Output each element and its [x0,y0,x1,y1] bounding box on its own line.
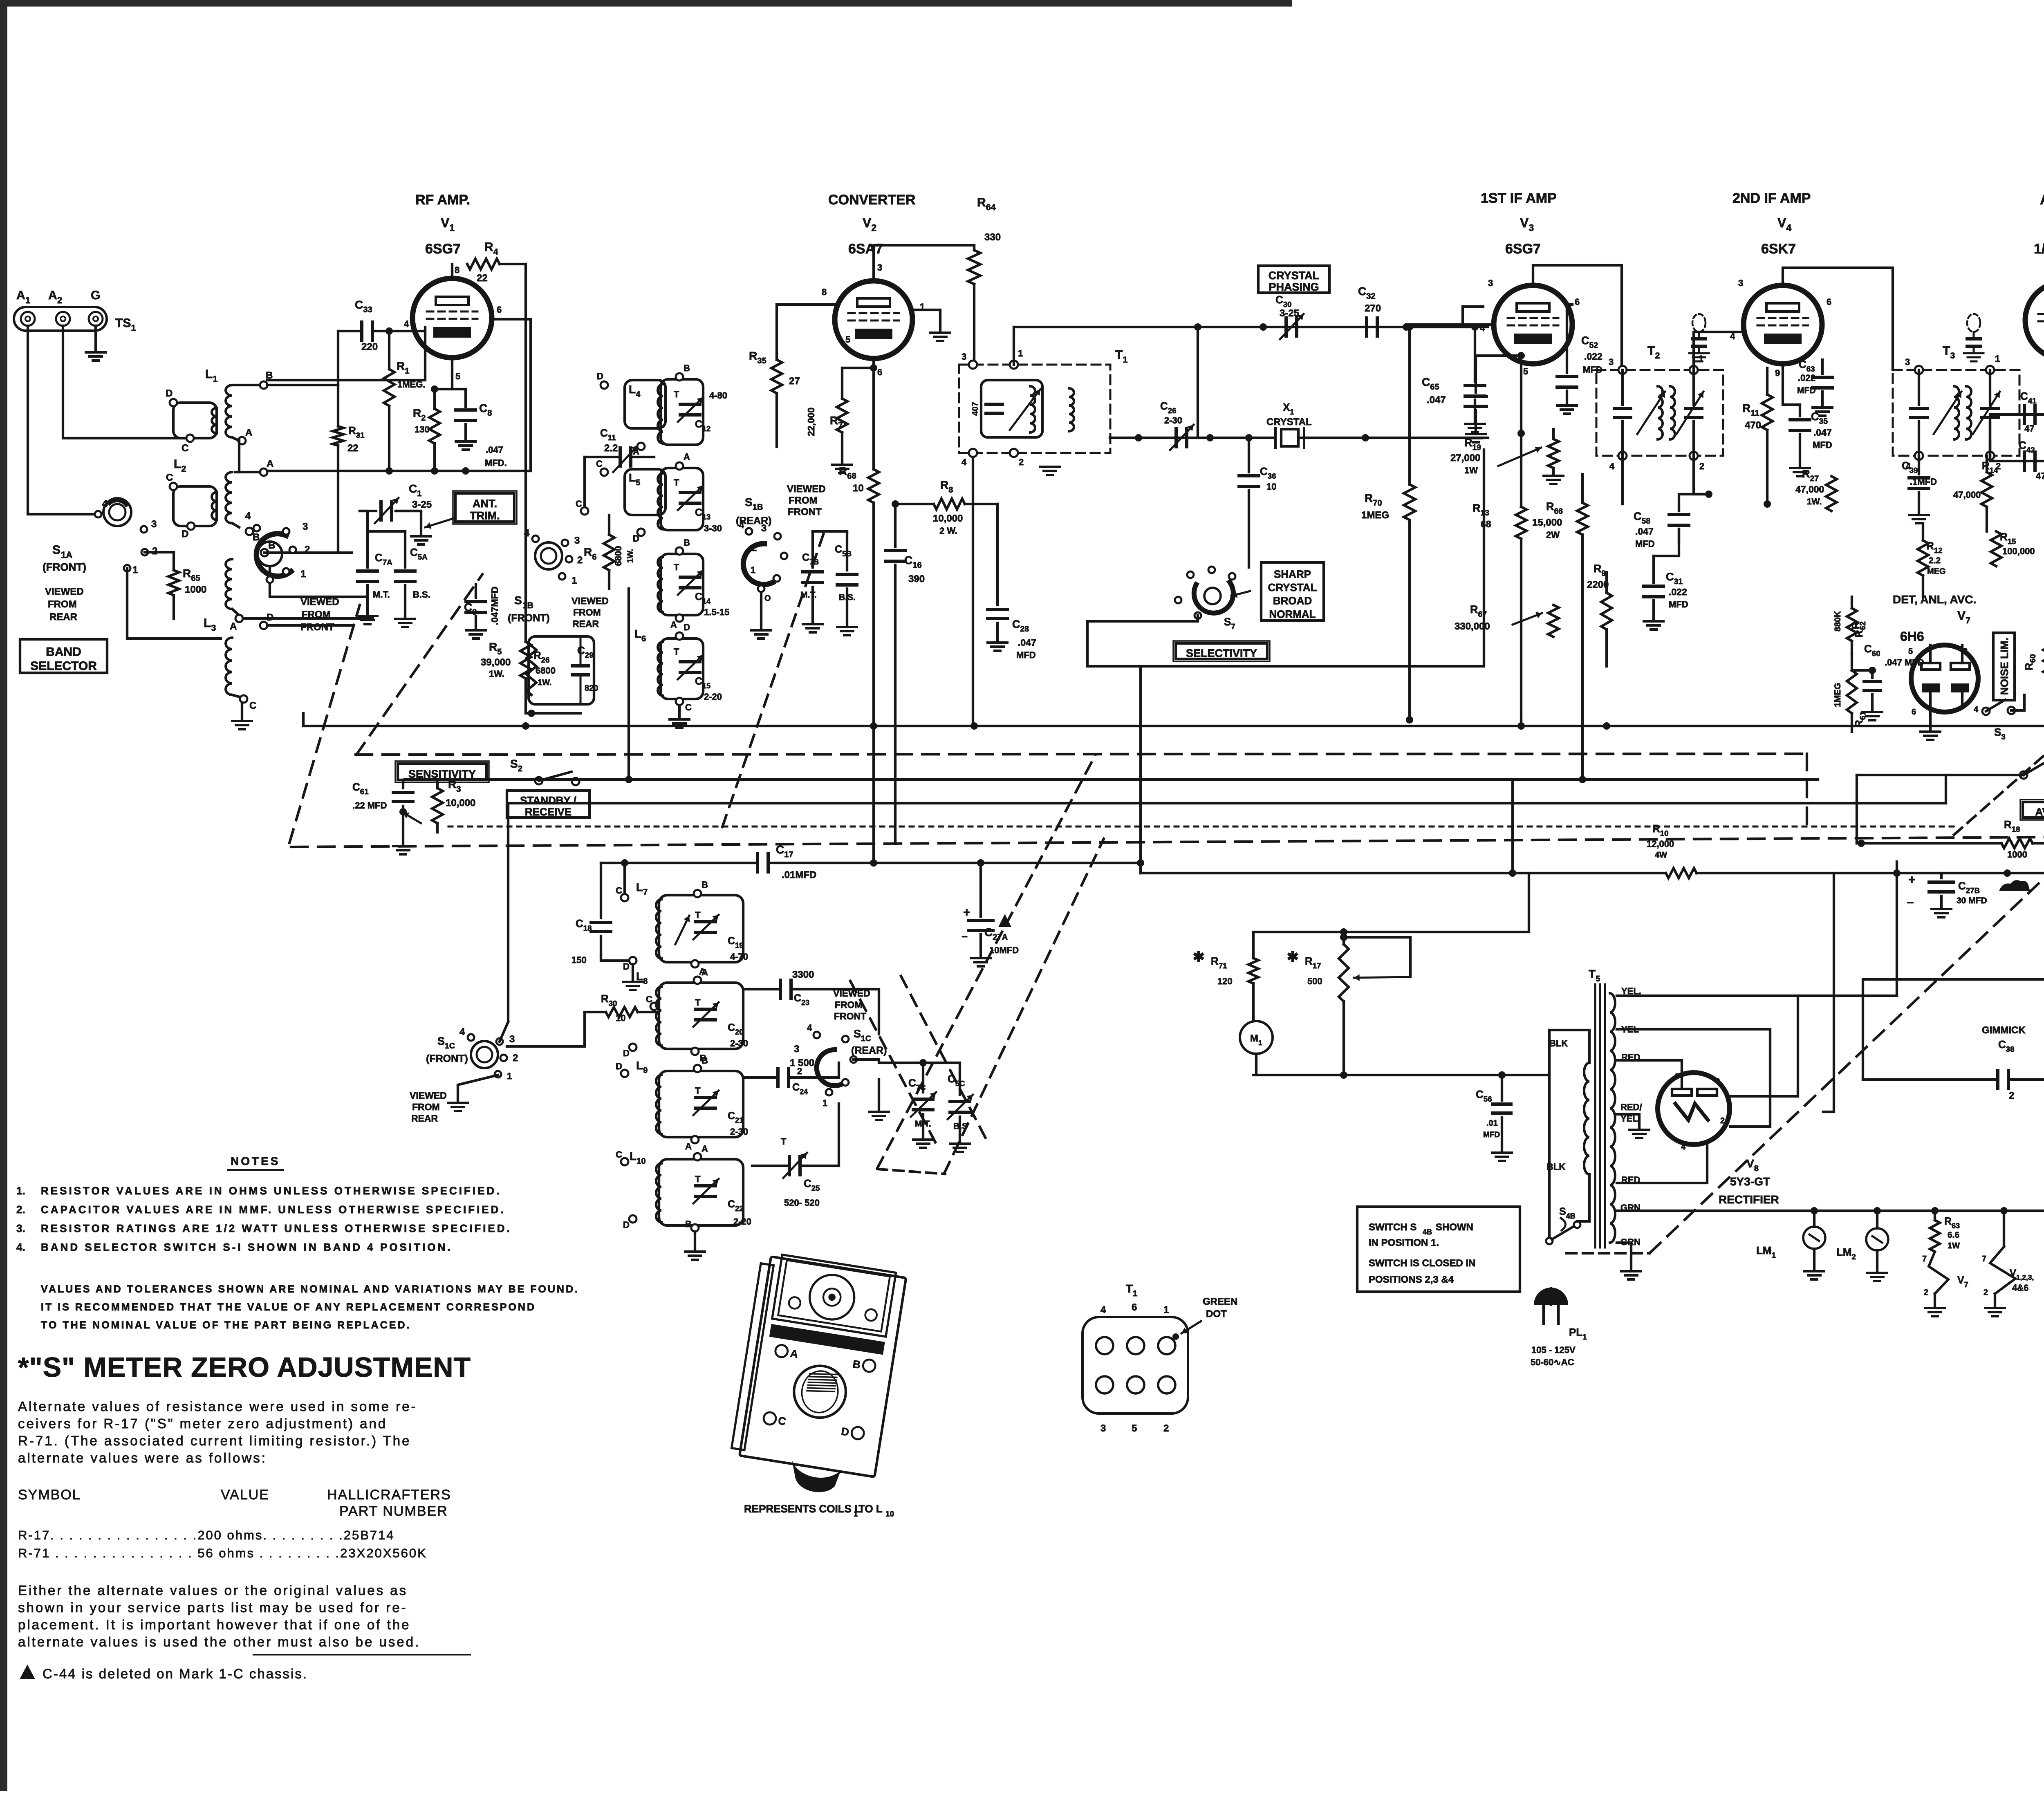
svg-text:MFD: MFD [1813,440,1832,450]
svg-text:+: + [1908,873,1916,887]
svg-text:1: 1 [25,295,30,305]
bus B+ feeders [525,713,526,726]
switch note box [1357,1207,1520,1292]
svg-text:VIEWED: VIEWED [787,484,826,495]
svg-text:D: D [623,961,630,972]
svg-text:1.5-15: 1.5-15 [704,607,729,617]
svg-text:S: S [52,543,61,557]
svg-text:3: 3 [1905,357,1910,367]
ground L7 [623,981,643,983]
svg-text:C5B: C5B [835,544,852,558]
svg-text:4-70: 4-70 [730,952,748,962]
svg-text:6: 6 [1132,1302,1137,1313]
long verticals IF [1253,915,1254,916]
svg-text:RESISTOR RATINGS ARE 1/2 W: RESISTOR RATINGS ARE 1/2 WATT UNLESS OTH… [41,1222,512,1234]
svg-text:1B: 1B [522,601,533,610]
svg-text:DOT: DOT [1206,1308,1227,1319]
svg-text:M1: M1 [1250,1033,1262,1047]
noise limiter vertical box [1993,633,2015,700]
svg-text:1/2 6SC7: 1/2 6SC7 [2034,241,2044,257]
svg-text:D: D [597,371,603,381]
svg-text:4.: 4. [16,1241,25,1253]
svg-text:2-20: 2-20 [733,1216,751,1227]
box R26 C29 [529,636,594,704]
svg-text:T: T [695,910,701,920]
svg-text:SHOWN: SHOWN [1436,1222,1473,1233]
svg-text:6SG7: 6SG7 [425,241,461,257]
wire V4 top pin6 [1821,268,1840,298]
svg-text:R71: R71 [1211,955,1227,970]
svg-text:2: 2 [513,1053,518,1064]
svg-text:4B: 4B [1423,1228,1432,1236]
svg-text:T: T [674,477,679,488]
svg-text:SELECTIVITY: SELECTIVITY [1186,647,1257,659]
rotary switch S1C front [471,1041,498,1068]
svg-text:4: 4 [245,511,251,522]
svg-text:T1: T1 [1115,348,1127,365]
svg-text:3: 3 [1100,1423,1106,1434]
svg-text:(FRONT): (FRONT) [426,1053,468,1064]
svg-text:1: 1 [132,564,138,576]
svg-text:L7: L7 [636,881,648,897]
svg-text:A: A [48,289,57,302]
svg-text:150: 150 [572,955,587,965]
svg-text:(REAR): (REAR) [851,1045,887,1056]
diag dashed main right [1650,432,2044,1252]
svg-text:.022: .022 [1584,351,1602,362]
svg-text:47,000: 47,000 [1953,490,1981,500]
svg-text:T: T [695,997,701,1008]
svg-text:2.2: 2.2 [604,443,618,454]
svg-text:1W: 1W [1948,1241,1960,1250]
svg-text:NORMAL: NORMAL [1269,608,1316,620]
svg-text:9: 9 [1775,368,1780,378]
svg-text:V4: V4 [1777,215,1791,233]
svg-text:GIMMICK: GIMMICK [1982,1025,2026,1036]
ground C8 [456,440,475,443]
svg-text:VIEWED: VIEWED [300,596,339,607]
tube V5 audio amp [2025,282,2044,359]
svg-text:120: 120 [1217,976,1233,986]
svg-text:2.: 2. [16,1203,25,1216]
svg-text:2-30: 2-30 [730,1127,748,1137]
svg-text:FROM: FROM [573,607,601,618]
svg-text:1.: 1. [16,1185,25,1197]
svg-text:PHASING: PHASING [1269,281,1319,293]
svg-text:VIEWED: VIEWED [572,596,609,606]
wire T2 pin2 down to C58 node [1694,456,1709,494]
diag dashed S1B gang [722,527,826,827]
svg-text:22: 22 [347,443,359,454]
svg-text:FROM: FROM [789,495,818,506]
crystal filter frame [1197,327,1199,438]
svg-text:27,000: 27,000 [1450,452,1480,464]
svg-text:A: A [230,621,237,632]
ground L6 [678,705,681,719]
svg-text:C17: C17 [776,843,793,859]
standby receive label box [507,791,589,818]
svg-text:1W.: 1W. [626,549,635,563]
meter line [1253,1074,1549,1076]
R10 screen line [1513,849,1818,850]
V7 pin wires [1929,645,1932,663]
svg-text:2-20: 2-20 [704,692,722,702]
det wiring frame [1823,597,2044,742]
svg-text:B: B [702,880,708,890]
svg-text:1: 1 [1995,354,2000,364]
wire L1 B to grid [267,327,425,380]
cathode bus y1152 [267,470,531,472]
svg-text:MEG: MEG [1927,567,1946,576]
svg-text:−: − [1907,896,1914,909]
svg-text:PL1: PL1 [1569,1326,1587,1341]
svg-text:V1: V1 [441,215,455,233]
svg-text:RECEIVE: RECEIVE [525,806,572,818]
svg-text:X1: X1 [1283,401,1294,416]
svg-text:RED/: RED/ [1620,1102,1642,1112]
svg-text:B: B [684,363,690,373]
svg-text:R5: R5 [489,641,502,656]
svg-text:D: D [684,622,690,632]
svg-text:2: 2 [305,544,310,555]
svg-text:D: D [623,1220,630,1230]
svg-text:2: 2 [751,542,757,553]
svg-text:VALUES AND TOLERANCES SHOWN A: VALUES AND TOLERANCES SHOWN ARE NOMINAL … [41,1284,579,1295]
wire A2 to L1 C terminal [63,326,190,438]
svg-text:S7: S7 [1224,616,1235,631]
vertical R10 to PS [1606,726,1607,862]
svg-text:AVC: AVC [2035,806,2044,818]
svg-text:5: 5 [845,334,850,345]
rotary switch S1A rear crescent [258,542,282,566]
svg-text:D: D [267,612,273,623]
svg-text:50-60∿AC: 50-60∿AC [1531,1357,1574,1367]
coil L5b box [661,554,703,615]
svg-text:1: 1 [572,575,577,586]
svg-text:R1: R1 [397,360,409,376]
wire S5 left [1857,774,2024,776]
svg-text:RECTIFIER: RECTIFIER [1719,1193,1779,1206]
svg-text:ANT.: ANT. [473,497,497,510]
svg-text:AUDIO AMP: AUDIO AMP [2040,192,2044,208]
svg-text:.047 MFD: .047 MFD [1885,657,1924,668]
svg-text:C: C [166,472,173,483]
svg-text:CRYSTAL: CRYSTAL [1268,581,1317,594]
svg-text:LM2: LM2 [1836,1246,1856,1261]
ground TS1-G [94,326,97,352]
svg-text:2.2: 2.2 [1929,556,1941,565]
svg-text:R-71 . . . . . . . . . . . . .: R-71 . . . . . . . . . . . . . . . 56 oh… [18,1546,427,1560]
crystal phasing label box [1258,266,1329,293]
svg-text:4W: 4W [1655,851,1667,860]
svg-text:T: T [674,389,679,399]
svg-text:3-25: 3-25 [412,499,432,510]
bus wire dashed 2 [291,834,2044,847]
T5 center tap ground [1617,1114,1639,1129]
svg-text:3: 3 [1738,278,1743,288]
svg-text:Alternate values of resista: Alternate values of resistance were used… [18,1399,417,1414]
svg-text:2ND IF AMP: 2ND IF AMP [1732,190,1811,206]
svg-text:10,000: 10,000 [446,797,475,809]
diag dashed S1C gang A [877,755,1096,1168]
svg-text:FRONT: FRONT [788,506,822,517]
svg-text:C60: C60 [1864,643,1880,658]
svg-text:S1C: S1C [437,1035,455,1051]
svg-text:1MEG.: 1MEG. [397,379,425,390]
svg-text:VALUE: VALUE [221,1487,269,1503]
svg-text:4: 4 [459,1026,465,1037]
svg-text:T: T [674,647,679,657]
svg-text:5: 5 [455,371,460,381]
scan artifact left bar [0,0,7,1791]
svg-text:C30: C30 [1275,293,1292,309]
svg-text:D: D [182,529,188,540]
svg-text:R65: R65 [183,567,200,583]
svg-text:B: B [702,1055,708,1066]
svg-text:68: 68 [1481,519,1491,529]
svg-text:L10: L10 [630,1150,646,1166]
wires L7-L10 left risers [507,1012,606,1046]
svg-text:880K: 880K [1833,611,1842,632]
wire S1A contact 1 [127,568,221,638]
shield capacitor [1967,314,1980,332]
svg-text:CRYSTAL: CRYSTAL [1269,269,1320,282]
primary BLK wires [1560,1030,1579,1063]
svg-text:22,000: 22,000 [806,408,816,436]
wire V2 plate top [872,245,875,281]
svg-text:R10: R10 [1652,822,1669,838]
svg-text:2: 2 [1924,1288,1928,1297]
svg-text:.22 MFD: .22 MFD [352,800,387,811]
svg-text:MFD.: MFD. [485,458,507,468]
coil L3 upper [261,549,268,556]
svg-text:R64: R64 [977,196,996,212]
svg-text:C: C [616,885,622,896]
svg-text:.01: .01 [1486,1119,1498,1128]
svg-text:C: C [596,459,603,469]
tube V2 6SA7 [835,281,912,358]
svg-text:TO L: TO L [858,1503,883,1515]
long vertical from S1B [628,589,630,780]
svg-text:1: 1 [823,1098,827,1108]
svg-text:.047: .047 [1018,637,1036,648]
svg-text:NOISE LIM.: NOISE LIM. [1998,638,2010,695]
svg-text:4: 4 [1100,1304,1106,1315]
svg-text:C20: C20 [728,1022,743,1036]
svg-text:A: A [16,289,25,302]
svg-text:3: 3 [794,1044,799,1055]
svg-text:270: 270 [1365,303,1381,314]
wire C27A feed [979,863,982,891]
svg-text:BROAD: BROAD [1273,595,1312,607]
svg-text:G: G [91,289,100,302]
svg-text:S: S [514,594,522,607]
svg-text:R18: R18 [2004,818,2020,833]
svg-text:6: 6 [1575,297,1580,307]
svg-text:C63: C63 [1799,358,1815,373]
svg-text:(FRONT): (FRONT) [43,561,86,573]
svg-text:D: D [166,388,173,399]
c44 deleted note [20,1664,35,1679]
svg-text:L2: L2 [174,457,186,474]
wire V3 grid line [1406,323,1494,326]
S4B dashed link [1567,1252,1650,1254]
coil assembly 3D drawing [727,1252,907,1501]
svg-text:L5: L5 [629,471,640,487]
svg-text:3: 3 [151,519,157,530]
svg-text:HALLICRAFTERS: HALLICRAFTERS [327,1487,451,1503]
svg-text:POSITIONS 2,3 &4: POSITIONS 2,3 &4 [1369,1274,1454,1285]
svg-text:C18: C18 [576,917,592,932]
svg-text:C16: C16 [904,554,922,570]
sensitivity label box [398,764,486,780]
svg-text:SWITCH S: SWITCH S [1369,1222,1416,1233]
svg-text:4: 4 [739,520,744,530]
svg-text:1A: 1A [61,550,72,560]
svg-text:C65: C65 [1422,376,1439,392]
svg-text:.047: .047 [1427,394,1446,405]
svg-text:R-71. (The associated curren: R-71. (The associated current limiting r… [18,1433,411,1448]
svg-text:ceivers for R-17 ("S" mete: ceivers for R-17 ("S" meter zero adjustm… [18,1416,387,1431]
wire L1 A link [232,437,239,441]
svg-text:C: C [646,994,652,1004]
wire V4 plate run to T3 [1783,268,1893,370]
svg-text:2-30: 2-30 [730,1038,748,1048]
svg-text:4: 4 [807,1023,812,1033]
svg-text:C8: C8 [479,402,492,418]
S7 wiring loop [1087,450,1484,666]
svg-text:alternate values is used t: alternate values is used the other must … [18,1634,420,1649]
svg-text:C: C [685,702,692,712]
terminal strip TS1 [14,307,107,331]
svg-text:NOTES: NOTES [231,1155,280,1167]
svg-text:M.T.: M.T. [373,589,390,600]
svg-text:L6: L6 [634,627,646,643]
svg-text:C33: C33 [355,298,372,314]
svg-text:6SK7: 6SK7 [1761,241,1796,257]
wire L7 C terminal up [623,863,626,894]
svg-text:IT IS RECOMMENDED THAT THE: IT IS RECOMMENDED THAT THE VALUE OF ANY … [41,1301,536,1313]
svg-text:5Y3-GT: 5Y3-GT [1730,1175,1770,1188]
svg-text:C21: C21 [728,1110,743,1125]
svg-text:5: 5 [1908,647,1913,656]
svg-text:C38: C38 [1998,1038,2015,1053]
svg-text:SWITCH IS CLOSED IN: SWITCH IS CLOSED IN [1369,1258,1475,1269]
svg-text:6SG7: 6SG7 [1505,241,1541,257]
svg-text:MFD: MFD [1635,539,1655,549]
vertical V2 line down [860,370,861,844]
svg-text:2: 2 [577,555,583,566]
ground L3 [241,703,243,720]
svg-text:SYMBOL: SYMBOL [18,1487,81,1503]
svg-text:15,000: 15,000 [1532,517,1562,528]
svg-text:T: T [695,1086,701,1096]
wire S6 left down [1863,979,2044,1080]
switch S3 [1982,708,1990,715]
svg-text:T: T [674,562,679,572]
svg-text:5: 5 [1523,366,1528,376]
svg-text:BAND: BAND [46,645,81,659]
svg-text:V8: V8 [1746,1157,1759,1173]
svg-text:6: 6 [877,367,882,377]
svg-text:REAR: REAR [49,612,77,623]
band selector label box [20,639,107,673]
tube V3 [1494,285,1572,364]
svg-text:C: C [616,1149,622,1160]
svg-text:3: 3 [961,352,966,362]
svg-text:3300: 3300 [792,969,814,980]
long vertical V2 plate supply [974,365,975,726]
svg-text:.047MFD: .047MFD [489,587,500,625]
svg-text:R63: R63 [1944,1216,1960,1230]
bus wire B+ top [303,725,2044,727]
vertical 2790 up [1139,666,1142,863]
svg-text:LM1: LM1 [1756,1244,1776,1259]
svg-text:MFD: MFD [1669,599,1688,609]
svg-text:.047: .047 [486,445,503,455]
svg-text:B.S.: B.S. [413,589,430,600]
svg-text:A: A [684,452,690,462]
svg-text:C11: C11 [600,427,616,442]
C27B cloud mark [1999,880,2030,891]
wire T1 pin4 down to B+ bus [972,457,974,726]
svg-text:FROM: FROM [302,609,331,620]
svg-text:C61: C61 [352,781,369,796]
svg-text:3: 3 [509,1034,515,1045]
wire T2 pin4 down [1621,456,1624,504]
svg-text:S1B: S1B [745,496,763,512]
svg-text:GREEN: GREEN [1203,1296,1237,1307]
bus wire dotted [448,826,1954,828]
svg-text:2: 2 [57,295,62,305]
svg-text:C36: C36 [1260,465,1276,480]
svg-text:A: A [685,1141,692,1151]
wire T1 pin1 up to mixer line [1013,327,1015,365]
svg-text:S1C: S1C [854,1028,871,1043]
svg-text:PART NUMBER: PART NUMBER [339,1503,448,1519]
diag dashed bottom link [877,1169,945,1174]
svg-text:3: 3 [1488,278,1493,288]
svg-text:8: 8 [1715,1077,1720,1086]
svg-text:10: 10 [1266,482,1276,492]
svg-text:RESISTOR VALUES ARE IN OHMS: RESISTOR VALUES ARE IN OHMS UNLESS OTHER… [41,1185,501,1197]
svg-text:R30: R30 [601,992,617,1008]
svg-text:.01MFD: .01MFD [782,869,816,880]
svg-text:10: 10 [885,1510,894,1519]
svg-text:C23: C23 [794,992,809,1007]
svg-text:390: 390 [908,573,925,585]
bus wire 4 [508,802,1946,804]
svg-text:4: 4 [404,319,409,329]
sharp crystal broad normal box [1261,562,1324,620]
wire S2 bus [403,780,539,780]
resistor R65 [145,552,174,570]
svg-text:520- 520: 520- 520 [784,1198,820,1208]
svg-text:R66: R66 [1546,500,1563,516]
svg-text:C: C [777,1414,787,1428]
svg-text:V7: V7 [1957,609,1970,625]
svg-text:1: 1 [1018,348,1023,358]
svg-text:500: 500 [1307,976,1322,986]
diag dashed S1C gang B [944,839,1104,1173]
svg-text:2: 2 [1720,1116,1725,1125]
svg-text:47: 47 [2036,471,2044,481]
svg-text:L3: L3 [204,616,216,633]
wire V2 g2 to R7 [842,358,874,368]
svg-text:R12: R12 [1926,540,1943,555]
shield capacitor [1692,314,1706,332]
coil L2 secondary [226,472,232,523]
